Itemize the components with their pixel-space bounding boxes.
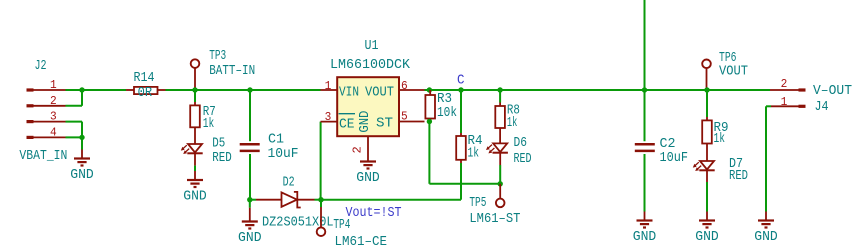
svg-text:1k: 1k xyxy=(203,117,215,132)
svg-text:D2: D2 xyxy=(283,175,295,190)
svg-text:CE: CE xyxy=(339,118,355,133)
svg-text:GND: GND xyxy=(70,168,94,183)
svg-text:D6: D6 xyxy=(514,136,528,151)
svg-text:1k: 1k xyxy=(507,116,518,131)
svg-text:VOUT: VOUT xyxy=(365,85,394,100)
svg-text:1: 1 xyxy=(50,78,57,92)
svg-text:1k: 1k xyxy=(468,147,480,162)
svg-text:J2: J2 xyxy=(35,59,47,74)
svg-text:C1: C1 xyxy=(268,133,284,148)
svg-text:BATT–IN: BATT–IN xyxy=(209,64,255,79)
svg-text:TP5: TP5 xyxy=(469,196,486,211)
svg-text:6: 6 xyxy=(401,79,408,93)
svg-text:3: 3 xyxy=(50,110,57,124)
svg-text:1: 1 xyxy=(325,79,332,93)
svg-text:0R: 0R xyxy=(138,86,153,101)
svg-text:2: 2 xyxy=(781,77,788,91)
svg-text:Vout=!ST: Vout=!ST xyxy=(346,206,402,221)
svg-text:C: C xyxy=(457,74,465,89)
svg-text:R3: R3 xyxy=(437,92,452,107)
svg-text:1: 1 xyxy=(781,95,788,109)
svg-text:1k: 1k xyxy=(714,132,726,147)
svg-text:5: 5 xyxy=(401,110,408,124)
svg-text:VIN: VIN xyxy=(339,85,359,100)
svg-text:VOUT: VOUT xyxy=(719,65,748,80)
svg-text:GND: GND xyxy=(356,171,380,186)
svg-text:2: 2 xyxy=(351,146,365,153)
svg-text:GND: GND xyxy=(633,230,657,245)
svg-text:RED: RED xyxy=(212,151,232,166)
svg-text:R14: R14 xyxy=(134,71,155,86)
svg-text:ST: ST xyxy=(376,117,393,132)
svg-text:4: 4 xyxy=(50,125,57,139)
svg-text:10uF: 10uF xyxy=(660,151,689,166)
svg-text:C2: C2 xyxy=(660,137,676,152)
svg-text:D5: D5 xyxy=(212,137,225,152)
svg-text:LM66100DCK: LM66100DCK xyxy=(330,58,411,73)
svg-text:2: 2 xyxy=(50,94,57,108)
svg-text:TP3: TP3 xyxy=(209,49,226,64)
svg-text:VBAT_IN: VBAT_IN xyxy=(19,149,67,164)
svg-text:GND: GND xyxy=(238,231,261,246)
svg-text:LM61–CE: LM61–CE xyxy=(335,235,388,250)
svg-text:GND: GND xyxy=(358,111,373,133)
svg-text:GND: GND xyxy=(754,230,778,245)
svg-text:GND: GND xyxy=(695,230,719,245)
svg-text:10uF: 10uF xyxy=(268,147,299,162)
svg-text:RED: RED xyxy=(514,152,532,167)
svg-text:V–OUT: V–OUT xyxy=(813,84,852,99)
svg-text:GND: GND xyxy=(183,190,207,205)
svg-text:10k: 10k xyxy=(437,106,457,121)
svg-text:U1: U1 xyxy=(365,39,379,54)
svg-text:LM61–ST: LM61–ST xyxy=(469,212,520,227)
svg-text:RED: RED xyxy=(729,169,748,184)
svg-text:J4: J4 xyxy=(815,100,829,115)
svg-text:3: 3 xyxy=(325,110,332,124)
